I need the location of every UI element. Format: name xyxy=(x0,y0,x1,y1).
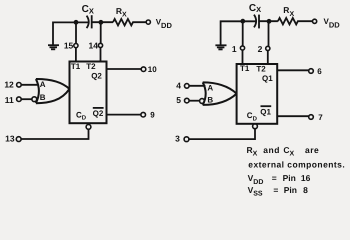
svg-text:14: 14 xyxy=(89,40,99,50)
svg-text:CX: CX xyxy=(82,4,94,15)
svg-text:Q2: Q2 xyxy=(93,109,104,118)
svg-text:11: 11 xyxy=(5,95,14,105)
svg-text:VDD: VDD xyxy=(324,17,341,29)
svg-text:15: 15 xyxy=(64,41,74,51)
svg-text:CX: CX xyxy=(249,3,261,14)
svg-text:2: 2 xyxy=(258,44,263,54)
svg-text:VDD: VDD xyxy=(156,17,173,29)
svg-text:12: 12 xyxy=(4,80,14,90)
svg-text:Q1: Q1 xyxy=(260,107,271,116)
svg-text:RX: RX xyxy=(283,5,294,18)
svg-text:4: 4 xyxy=(176,80,181,90)
svg-text:T2: T2 xyxy=(256,64,266,73)
svg-text:9: 9 xyxy=(150,110,155,119)
svg-text:3: 3 xyxy=(175,134,180,144)
svg-text:T1: T1 xyxy=(240,64,250,73)
svg-text:Q1: Q1 xyxy=(262,74,273,83)
svg-text:5: 5 xyxy=(176,95,181,105)
svg-text:13: 13 xyxy=(5,134,15,144)
svg-text:RXandCXare: RXandCXare xyxy=(247,145,320,157)
svg-text:RX: RX xyxy=(116,6,127,19)
svg-text:10: 10 xyxy=(148,65,157,74)
svg-text:B: B xyxy=(207,96,213,105)
svg-text:T1: T1 xyxy=(71,62,81,71)
svg-text:T2: T2 xyxy=(86,62,96,71)
svg-text:A: A xyxy=(207,84,213,93)
svg-text:B: B xyxy=(40,93,46,102)
svg-text:VSS=Pin8: VSS=Pin8 xyxy=(248,185,309,198)
svg-text:CD: CD xyxy=(76,110,87,121)
svg-text:VDD=Pin16: VDD=Pin16 xyxy=(248,173,311,186)
svg-text:7: 7 xyxy=(318,113,323,122)
svg-text:1: 1 xyxy=(232,44,237,54)
svg-text:6: 6 xyxy=(317,67,322,76)
svg-text:Q2: Q2 xyxy=(91,71,102,80)
svg-text:CD: CD xyxy=(247,111,258,122)
svg-text:external components.: external components. xyxy=(248,159,345,169)
svg-text:A: A xyxy=(40,80,46,89)
